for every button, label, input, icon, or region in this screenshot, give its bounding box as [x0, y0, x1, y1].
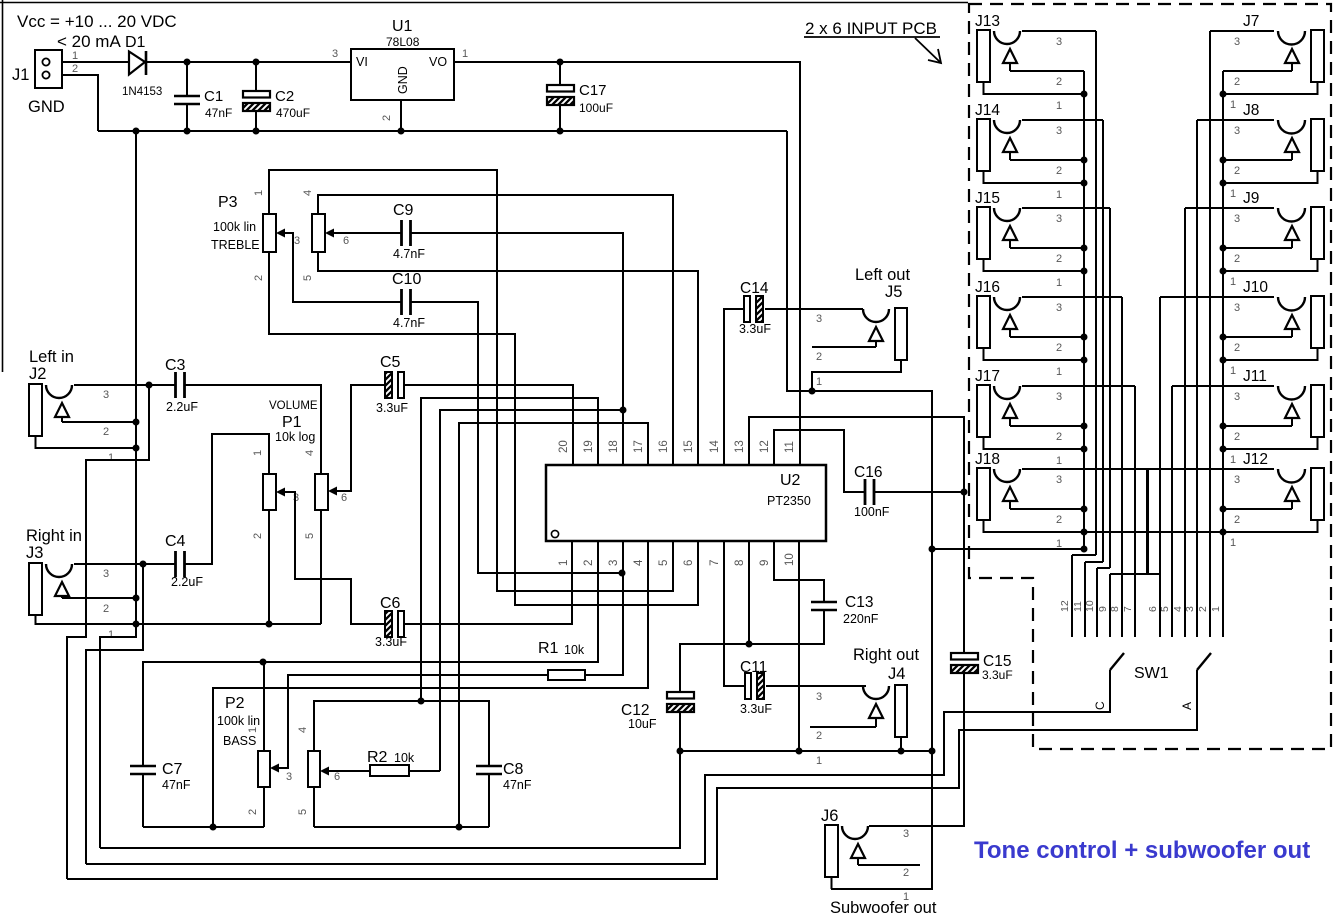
wire ground rail drop at x787 to J5 area: [787, 131, 812, 391]
svg-text:3: 3: [816, 691, 822, 703]
capacitor C11 plates: [745, 673, 751, 699]
jack J8 ring contact triangle: [1285, 138, 1299, 152]
wire J12 pin3 to selector column: [1147, 468, 1274, 470]
node dot right bus: [1220, 157, 1227, 164]
capacitor C16 plates: [864, 479, 867, 505]
svg-text:4.7nF: 4.7nF: [393, 247, 425, 261]
jack J4 ring contact triangle: [869, 704, 883, 718]
node dot ground at out rail: [929, 748, 936, 755]
node dot pin3 top connection: [619, 570, 626, 577]
wire D1 to U1 VI (top +V rail): [147, 61, 351, 63]
svg-text:J2: J2: [29, 365, 46, 383]
potentiometer P3 gang2 body: [312, 214, 325, 252]
jack J18 ring contact triangle: [1003, 487, 1017, 501]
svg-text:P1: P1: [282, 414, 302, 431]
svg-text:1: 1: [1230, 99, 1236, 111]
wire C15 bottom to J6 tip: [869, 670, 964, 826]
svg-text:10: 10: [784, 553, 796, 566]
svg-text:9: 9: [759, 560, 771, 566]
node dot J2 pin3: [146, 382, 153, 389]
svg-text:4: 4: [1172, 606, 1184, 612]
svg-text:J4: J4: [888, 665, 905, 683]
node dot ground rail J2 branch: [133, 621, 140, 628]
wire C17 bottom: [559, 105, 561, 131]
jack J13 sleeve: [977, 30, 990, 82]
svg-text:J14: J14: [975, 102, 1000, 119]
connector J1 body: [35, 50, 62, 88]
wire C6 right to U2 pin1: [405, 541, 572, 624]
svg-text:J18: J18: [975, 451, 1000, 468]
wire J16 pin2 to ground bus: [1010, 336, 1084, 338]
svg-text:R1: R1: [538, 640, 559, 657]
svg-text:1: 1: [1056, 189, 1062, 201]
node dot C12 at output rail: [677, 748, 684, 755]
wire C3 to P1 gang2 pin4: [184, 385, 321, 474]
svg-text:19: 19: [583, 440, 595, 453]
svg-text:1: 1: [1056, 277, 1062, 289]
svg-text:2: 2: [252, 533, 264, 539]
svg-text:6: 6: [341, 492, 347, 504]
svg-text:1: 1: [1056, 100, 1062, 112]
svg-text:3: 3: [1184, 606, 1196, 612]
svg-text:J12: J12: [1243, 451, 1268, 468]
node dot right bus: [1220, 334, 1227, 341]
capacitor C13 plates: [811, 601, 837, 603]
wire J14 pin2 to ground bus: [1010, 159, 1084, 161]
node dots C17: [557, 59, 564, 66]
svg-text:1: 1: [247, 727, 259, 733]
svg-text:10uF: 10uF: [628, 717, 657, 731]
svg-text:Tone control + subwoofer out: Tone control + subwoofer out: [974, 837, 1310, 864]
wire J4 pin2 stub: [810, 726, 876, 728]
wire J11 pin3 to selector column: [1172, 385, 1274, 387]
svg-text:U1: U1: [392, 18, 413, 35]
svg-text:J3: J3: [26, 544, 43, 562]
svg-text:13: 13: [734, 440, 746, 453]
node dot x459 on C8 bottom rail: [456, 824, 463, 831]
svg-text:2: 2: [1234, 342, 1240, 354]
svg-text:2: 2: [1056, 253, 1062, 265]
node dot left bus: [1081, 446, 1088, 453]
svg-text:2: 2: [903, 867, 909, 879]
svg-text:TREBLE: TREBLE: [211, 238, 260, 252]
regulator U1 box: [351, 49, 454, 100]
wire SW column 2 from J7: [1209, 31, 1211, 637]
svg-text:1: 1: [1230, 188, 1236, 200]
capacitor C7 plates: [130, 765, 156, 767]
capacitor C4 plates: [174, 551, 177, 577]
wire P2 gang2 wiper to R2: [329, 770, 370, 772]
jack J17 ring contact triangle: [1003, 404, 1017, 418]
node dot P1 pin2: [266, 621, 273, 628]
svg-text:J8: J8: [1243, 102, 1259, 119]
wire right jack ground bus: [1222, 71, 1224, 637]
svg-text:3: 3: [608, 560, 620, 566]
svg-text:1: 1: [462, 48, 468, 60]
P2 gang1 wiper arrow: [270, 764, 279, 773]
node dot left bus: [1081, 268, 1088, 275]
wire J15 column down: [1109, 208, 1111, 568]
svg-text:4: 4: [304, 450, 316, 456]
P1 gang1 wiper arrow: [276, 488, 285, 497]
wire J3 pin3 branch to selector (C): [86, 564, 143, 864]
svg-text:3: 3: [816, 313, 822, 325]
wire P3 pin4 to U2 pin16: [318, 195, 673, 465]
capacitor C15 plates: [951, 653, 978, 660]
node dot left bus: [1081, 357, 1088, 364]
svg-text:470uF: 470uF: [276, 106, 310, 120]
node dot U2 pin8: [746, 641, 753, 648]
svg-text:1: 1: [1230, 537, 1236, 549]
wire C1 top: [186, 62, 188, 96]
node dot left bus interconnect: [1081, 529, 1088, 536]
svg-text:17: 17: [633, 440, 645, 453]
capacitor C1 plates: [174, 95, 200, 97]
node dot right bus: [1220, 180, 1227, 187]
potentiometer P1 gang2 body: [315, 474, 328, 510]
wire U2 pin14 to C14: [724, 309, 744, 465]
wire J3 pin2 to ground: [62, 597, 136, 599]
svg-text:1: 1: [1230, 454, 1236, 466]
svg-text:6: 6: [1147, 606, 1159, 612]
wire J8 pin1 to ground bus: [1223, 171, 1318, 183]
svg-text:3: 3: [103, 389, 109, 401]
svg-text:J5: J5: [885, 283, 902, 301]
wire P3 gang2 wiper to C9 left: [334, 232, 401, 234]
svg-text:5: 5: [302, 275, 314, 281]
wire J6 pin1 to ground: [831, 877, 833, 889]
jack J2 tip contact arc: [46, 385, 72, 398]
wire J6 pin3 tip: [870, 825, 964, 827]
jack J3 ring contact triangle: [55, 582, 69, 596]
capacitor C10 plates: [400, 289, 403, 315]
wire C7 bottom to bass rail: [142, 774, 144, 827]
svg-text:1: 1: [1230, 276, 1236, 288]
svg-text:C6: C6: [380, 595, 401, 612]
svg-text:C3: C3: [165, 357, 186, 374]
svg-text:C7: C7: [162, 761, 183, 778]
svg-text:3: 3: [1234, 302, 1240, 314]
svg-text:Left out: Left out: [855, 266, 910, 284]
wire J18 pin2 to ground bus: [1010, 508, 1084, 510]
jack J3 tip contact arc: [46, 564, 72, 577]
wire U2 pin3 down to R1 right: [585, 541, 623, 675]
svg-text:U2: U2: [780, 472, 801, 489]
wire C17 top: [559, 62, 561, 85]
svg-text:Vcc = +10 ... 20 VDC: Vcc = +10 ... 20 VDC: [17, 12, 177, 31]
input PCB dashed outline: [969, 4, 1331, 749]
wire P2 gang2 pin4 to C8 top line: [314, 701, 489, 766]
svg-text:2: 2: [103, 603, 109, 615]
wire P2 pin2 to bass rail: [263, 787, 265, 827]
svg-text:J13: J13: [975, 13, 1000, 30]
P2 gang2 wiper arrow: [320, 767, 329, 776]
svg-text:C8: C8: [503, 761, 524, 778]
node dot left bus: [1081, 180, 1088, 187]
svg-text:5: 5: [1159, 606, 1171, 612]
wire C16 right plate to x964: [874, 491, 964, 493]
node dots C2: [253, 59, 260, 66]
svg-text:2: 2: [247, 809, 259, 815]
P3 gang1 wiper arrow: [276, 229, 285, 238]
svg-text:2: 2: [1056, 514, 1062, 526]
wire J1 pin2 down to ground rail: [62, 75, 98, 131]
svg-text:2: 2: [816, 730, 822, 742]
svg-text:4.7nF: 4.7nF: [393, 316, 425, 330]
jack J2 sleeve: [29, 384, 42, 436]
svg-text:5: 5: [304, 533, 316, 539]
wire J3 pin1 to ground rail: [36, 615, 322, 624]
capacitor C3 plates: [174, 372, 177, 398]
svg-text:100uF: 100uF: [579, 101, 613, 115]
wire SW column 6 from J10: [1159, 297, 1161, 637]
wire J3 pin3 to C4: [74, 563, 176, 565]
svg-text:8: 8: [734, 560, 746, 566]
wire J15 pin2 to ground bus: [1010, 247, 1084, 249]
svg-text:J17: J17: [975, 368, 1000, 385]
resistor R2 body: [370, 765, 409, 776]
svg-text:15: 15: [683, 440, 695, 453]
svg-text:5: 5: [658, 560, 670, 566]
capacitor C8 plates: [476, 765, 502, 767]
wire J17 pin1 to ground bus: [984, 437, 1085, 449]
jack J12 sleeve: [1311, 468, 1324, 520]
node dot P2 pin1 on pin2 line: [260, 659, 267, 666]
svg-text:D1: D1: [125, 34, 146, 51]
svg-text:C1: C1: [204, 88, 223, 105]
svg-text:GND: GND: [396, 66, 410, 94]
svg-text:6: 6: [334, 771, 340, 783]
svg-text:C14: C14: [740, 280, 769, 297]
svg-text:A: A: [1180, 702, 1194, 710]
svg-text:1: 1: [1056, 538, 1062, 550]
jack J12 ring contact triangle: [1285, 487, 1299, 501]
wire left jack ground bus: [1083, 71, 1085, 549]
svg-text:3.3uF: 3.3uF: [740, 702, 772, 716]
wire output ground rail: [680, 750, 932, 752]
node dot left bus: [1081, 245, 1088, 252]
wire J14 pin1 to ground bus: [984, 171, 1085, 183]
svg-text:2.2uF: 2.2uF: [166, 400, 198, 414]
wire C4 to P1 gang1 pin1: [184, 434, 269, 564]
jack J5 sleeve: [895, 308, 907, 360]
svg-text:2: 2: [1234, 76, 1240, 88]
wire SW column 11 elbow from J14: [1084, 562, 1086, 637]
wire J17 pin2 to ground bus: [1010, 425, 1084, 427]
SW1 arm C: [1110, 653, 1124, 670]
wire U2 pin18 stub up: [622, 410, 624, 465]
wire J8 pin2 to ground bus: [1223, 159, 1292, 161]
node dot J5 pin1 ground: [809, 388, 816, 395]
svg-text:Subwoofer out: Subwoofer out: [830, 899, 937, 917]
wire C12 bottom through rail to y848 bus: [100, 712, 680, 848]
jack J12 tip contact arc: [1278, 469, 1305, 483]
svg-text:J6: J6: [821, 807, 838, 825]
svg-text:3: 3: [1234, 391, 1240, 403]
wire J16 pin3 to selector column: [1022, 296, 1122, 298]
jack J18 tip contact arc: [994, 469, 1020, 482]
jack J10 sleeve: [1311, 296, 1324, 348]
jack J11 ring contact triangle: [1285, 404, 1299, 418]
wire P1 gang2 wiper to C5 left: [337, 385, 385, 491]
arrow to input PCB: [915, 38, 941, 63]
wire J5 pin2 stub: [812, 346, 876, 348]
jack J14 sleeve: [977, 119, 990, 171]
svg-text:VO: VO: [429, 55, 447, 69]
wire J12 elbow to column 6: [1147, 469, 1160, 574]
wire U2 pin13 to x964 riser: [749, 417, 964, 653]
capacitor C14 plates: [744, 296, 750, 322]
svg-text:BASS: BASS: [223, 734, 256, 748]
wire J13 pin2 to ground bus: [1010, 70, 1084, 72]
svg-text:47nF: 47nF: [503, 778, 532, 792]
wire J6 pin2 stub: [858, 864, 920, 866]
wire bass rail1 C7 to P2 pin2: [143, 826, 264, 828]
jack J14 ring contact triangle: [1003, 138, 1017, 152]
svg-text:J10: J10: [1243, 279, 1268, 296]
svg-text:1: 1: [816, 376, 822, 388]
wire P2 pin5 to bass rail2: [313, 787, 315, 827]
svg-text:C10: C10: [392, 271, 421, 288]
svg-text:R2: R2: [367, 749, 388, 766]
node dot right bus: [1220, 245, 1227, 252]
wire SW column 5 from J11: [1171, 386, 1173, 637]
svg-text:11: 11: [784, 441, 796, 453]
jack J8 tip contact arc: [1278, 120, 1305, 134]
wire J1 pin1 to D1: [62, 61, 129, 63]
node dot ground rail at x136: [133, 128, 140, 135]
wire J11 pin1 to ground bus: [1223, 437, 1318, 449]
wire J7 pin3 to selector column: [1210, 30, 1274, 32]
wire J18 pin3 to selector column: [1022, 468, 1148, 470]
svg-text:10: 10: [1084, 600, 1096, 612]
wire J9 pin2 to ground bus: [1223, 247, 1292, 249]
svg-text:9: 9: [1097, 606, 1109, 612]
jack J18 sleeve: [977, 468, 990, 520]
svg-text:2: 2: [1234, 514, 1240, 526]
svg-text:C16: C16: [854, 464, 882, 481]
svg-text:2.2uF: 2.2uF: [171, 575, 203, 589]
wire J11 pin2 to ground bus: [1223, 425, 1292, 427]
wire J18 column down: [1147, 469, 1149, 574]
node dot ground/SW line: [929, 546, 936, 553]
wire J7 pin1 to ground bus: [1223, 82, 1318, 94]
svg-text:10k log: 10k log: [275, 430, 315, 444]
node dot right bus: [1220, 91, 1227, 98]
svg-text:P3: P3: [218, 194, 238, 211]
node dot right bus: [1220, 506, 1227, 513]
wire C1 bottom: [186, 104, 188, 131]
wire J13 column down: [1095, 31, 1097, 555]
svg-text:2: 2: [1056, 76, 1062, 88]
svg-text:1: 1: [108, 629, 114, 641]
svg-text:2: 2: [816, 351, 822, 363]
svg-text:< 20 mA: < 20 mA: [57, 32, 121, 51]
svg-text:1: 1: [1230, 365, 1236, 377]
svg-text:3: 3: [1056, 474, 1062, 486]
svg-text:3: 3: [293, 492, 299, 504]
wire J10 pin2 to ground bus: [1223, 336, 1292, 338]
svg-text:78L08: 78L08: [386, 35, 420, 49]
svg-text:2: 2: [1056, 431, 1062, 443]
svg-text:3: 3: [294, 235, 300, 247]
wire J16 pin1 to ground bus: [984, 348, 1085, 360]
jack J6 sleeve: [825, 825, 838, 877]
node dot x421 on C8 top line: [418, 698, 425, 705]
jack J3 sleeve: [29, 563, 42, 615]
jack J9 sleeve: [1311, 207, 1324, 259]
wire SW1 common C to bass selector line: [86, 670, 1110, 864]
svg-text:2: 2: [583, 560, 595, 566]
wire P3 pin1 to x497 riser to U2 pin5 line: [269, 170, 673, 591]
svg-text:6: 6: [683, 560, 695, 566]
svg-text:3.3uF: 3.3uF: [739, 322, 771, 336]
svg-text:C17: C17: [579, 82, 607, 99]
svg-text:1N4153: 1N4153: [122, 86, 162, 98]
svg-text:10k: 10k: [564, 643, 585, 657]
wire ground from J5 down right side: [812, 391, 932, 889]
P3 gang2 wiper arrow: [325, 229, 334, 238]
jack J5 tip contact arc: [863, 309, 889, 322]
svg-text:2: 2: [253, 275, 265, 281]
jack J9 ring contact triangle: [1285, 226, 1299, 240]
svg-text:1: 1: [1056, 366, 1062, 378]
wire SW column 7 from J17: [1134, 386, 1136, 637]
wire C10 right down x478 to U2 pin3: [410, 302, 622, 573]
svg-text:3: 3: [1056, 125, 1062, 137]
wire C8 bottom to bass rail2: [488, 774, 490, 827]
node dot U2 pin18 branch: [620, 407, 627, 414]
wire SW column 10 elbow from J15: [1096, 568, 1098, 637]
wire J8 pin3 to selector column: [1197, 119, 1274, 121]
svg-text:GND: GND: [28, 98, 65, 116]
wire U2 pin9 to C13 top: [774, 541, 824, 602]
wire U2 pin2 to C7 top / P2 pin1 line: [143, 541, 598, 766]
capacitor C12 plates: [667, 692, 694, 699]
svg-text:3: 3: [1056, 213, 1062, 225]
wire J2 pin1 to ground: [36, 436, 137, 448]
wire C2 bottom: [255, 111, 257, 131]
jack J10 tip contact arc: [1278, 297, 1305, 311]
jack J13 ring contact triangle: [1003, 49, 1017, 63]
resistor R1 body: [548, 670, 585, 680]
wire C13 bottom to C12 line: [680, 610, 824, 692]
node dots C1: [184, 59, 191, 66]
wire J2 pin3 to C3: [74, 384, 176, 386]
svg-text:1: 1: [1056, 455, 1062, 467]
jack J9 tip contact arc: [1278, 208, 1305, 222]
wire J9 pin3 to selector column: [1185, 207, 1274, 209]
wire SW column 3 from J8: [1196, 120, 1198, 637]
svg-text:14: 14: [709, 440, 721, 453]
svg-text:VOLUME: VOLUME: [269, 400, 318, 412]
diode D1: [129, 52, 145, 75]
wire C11 right to J4 tip: [766, 685, 866, 687]
node dot right bus: [1220, 357, 1227, 364]
svg-text:1: 1: [558, 560, 570, 566]
jack J16 tip contact arc: [994, 297, 1020, 310]
svg-text:2: 2: [1234, 431, 1240, 443]
wire J15 pin1 to ground bus: [984, 259, 1085, 271]
jack J11 tip contact arc: [1278, 386, 1305, 400]
wire top ground rail: [98, 130, 787, 132]
wire U1 VO output rail to +8V drop: [454, 62, 800, 465]
svg-text:Left in: Left in: [29, 348, 74, 366]
wire J13 pin1 to ground bus: [984, 82, 1085, 94]
page border top: [0, 2, 968, 4]
node dot right bus: [1220, 423, 1227, 430]
jack J2 ring contact triangle: [55, 403, 69, 417]
